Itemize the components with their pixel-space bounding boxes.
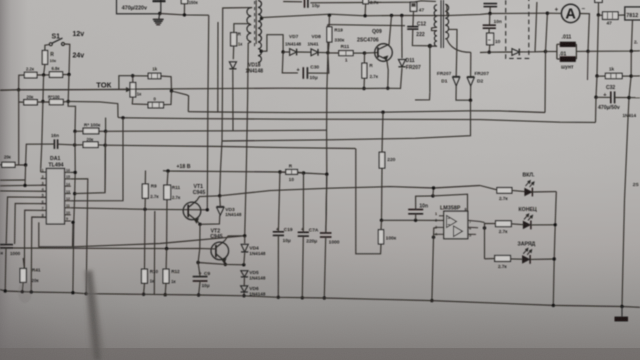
diode D11: [398, 59, 405, 66]
node row2 right: [67, 100, 70, 103]
resistor R11: [339, 51, 353, 56]
wire shunt right lead: [576, 50, 588, 52]
wire led3 left: [485, 258, 495, 260]
wire pin16 to col75: [71, 171, 75, 173]
wire 47 right: [618, 14, 625, 16]
bus 18v: [163, 171, 327, 175]
wire pot bottom: [132, 97, 148, 104]
node left bus: [17, 88, 20, 91]
wire Rstar leads: [75, 130, 83, 132]
wire amp left: [547, 12, 561, 14]
diode VD8: [311, 49, 318, 56]
diode VD7: [290, 49, 297, 56]
resistor R12: [163, 269, 169, 283]
resistor 1k right: [605, 73, 622, 78]
wire row1 mid: [37, 74, 49, 76]
wire shunt right down: [587, 51, 590, 80]
node 20k3 right: [104, 144, 107, 147]
transformer T1 core: [255, 0, 257, 44]
node bus-pin12col: [121, 116, 124, 119]
resistor 150k: [181, 0, 187, 4]
diode opto: [512, 49, 519, 56]
transistor VT1: [183, 202, 201, 220]
wire amp right: [580, 14, 590, 52]
node bus pin4: [430, 299, 433, 302]
wire shunt col up: [546, 13, 548, 51]
node C32 right: [627, 96, 630, 99]
resistor R 10k: [42, 51, 47, 65]
node Rstar right: [104, 130, 107, 133]
potentiometer 1k TOK: [130, 83, 136, 98]
wire R10h right: [298, 171, 304, 174]
bus ground mid: [0, 89, 19, 91]
wire R9R10 col: [144, 209, 147, 269]
wire VD3 top: [219, 196, 222, 207]
resistor R9: [142, 184, 148, 198]
wire pin2 row lm: [382, 219, 444, 221]
shunt R upper bar: [560, 42, 576, 47]
resistor R10 bl: [142, 269, 148, 283]
node bus c: [71, 291, 74, 294]
node led2 cathode: [554, 223, 557, 226]
transistor Q09: [375, 44, 393, 62]
wire C19 top: [278, 172, 280, 232]
wire C32 leads: [596, 96, 611, 98]
wire hf cap down: [489, 7, 491, 14]
bus emitter ground: [0, 68, 402, 90]
node C19 bus: [277, 296, 280, 299]
pin 16 stub: [65, 171, 71, 173]
node VT2c: [243, 234, 246, 237]
node 10n bottom: [414, 219, 417, 222]
wire row1 right: [63, 74, 69, 76]
wire 1k right hook: [161, 76, 172, 91]
node row2 branch: [483, 226, 486, 229]
wire col105: [104, 131, 107, 192]
node 150k bus: [183, 13, 186, 16]
node drive-R9: [143, 208, 146, 211]
node 1k left: [595, 74, 598, 77]
wire 18col to row: [18, 102, 20, 165]
wire pin8 bend: [31, 217, 46, 292]
transformer T2 primary lower: [434, 31, 437, 47]
wire T2 sec bottom: [447, 39, 471, 52]
wire 1k bus right: [631, 75, 640, 77]
wire R41 bottom: [21, 282, 24, 291]
wire C9 top: [198, 224, 200, 276]
transformer T2 core: [440, 0, 442, 48]
wire row2 right: [63, 100, 68, 103]
node C9 bus: [197, 293, 200, 296]
node C32 left: [594, 96, 597, 99]
wire VT1e to VD3: [200, 215, 220, 224]
wire 10n to 10: [488, 28, 490, 33]
wire col597 down: [596, 76, 597, 97]
node 1k right: [629, 74, 632, 77]
node emitter bus: [386, 87, 389, 90]
resistor 47 snub: [410, 2, 417, 11]
capacitor plate bar top-left: [153, 0, 166, 2]
wire long vertical from bus to pin11 row: [207, 15, 208, 210]
wire T2 pri bottom: [430, 46, 437, 92]
node bus amp: [546, 12, 549, 15]
pin 14 stub: [65, 185, 71, 187]
wire 47 to C12: [412, 11, 415, 26]
node R10 bus: [142, 293, 145, 296]
wire col right down: [67, 75, 70, 102]
wire diode out up: [520, 2, 537, 52]
resistor 2.7k led1: [497, 188, 512, 194]
LED ZARYAD: [523, 256, 530, 263]
wire 20k4 left: [0, 164, 2, 166]
node R41 bus: [21, 290, 24, 293]
node 18 end: [325, 173, 328, 176]
wire VT2 collector: [225, 236, 245, 241]
wire 220 bottom: [381, 168, 384, 220]
ground terminal bar: [621, 307, 623, 317]
resistor 2.7k top: [363, 0, 369, 4]
diode VD4: [241, 244, 248, 252]
wire vcc from rail: [432, 188, 435, 196]
bus comp row: [105, 145, 355, 148]
wire 47 left: [598, 14, 602, 16]
wire D2 out: [470, 86, 472, 100]
node VD5 top: [242, 263, 245, 266]
wire led1 leads: [512, 190, 525, 191]
wire T2 sec mid tap: [449, 29, 457, 76]
wire R2.7 bottom: [363, 78, 365, 88]
resistor R 2.7k emitter: [362, 63, 367, 78]
wire R2.7 top: [363, 53, 365, 63]
node VD6 bus: [242, 294, 245, 297]
node pin16: [74, 171, 77, 174]
wire 10u right: [310, 1, 436, 3]
wire VD5-VD6: [243, 278, 245, 286]
wire VT2 base row: [13, 247, 216, 250]
node R10h left: [278, 170, 281, 173]
wire sense line: [68, 101, 118, 117]
node drive-col208: [206, 208, 209, 211]
capacitor 1000 left: [0, 244, 13, 246]
wire diode row: [283, 51, 290, 53]
wire 20k4 right: [15, 164, 26, 166]
wire 20k left: [19, 101, 24, 103]
wire col598 down: [597, 15, 598, 76]
resistor R 10 horiz: [286, 170, 298, 175]
wire VD4 leads: [244, 236, 246, 244]
node R12 bus: [164, 293, 167, 296]
wire 1k leads: [597, 75, 605, 77]
capacitor 1000 mid: [320, 232, 332, 234]
dashed box opto: [506, 0, 529, 58]
wire pin9 down: [72, 222, 75, 247]
wire row2 to col75: [68, 101, 75, 131]
pin 5 stub: [41, 196, 47, 198]
bus rect to shunt: [480, 51, 512, 54]
wire pin1 up: [40, 169, 42, 172]
node bus-R19: [328, 14, 331, 17]
wire left vertical: [18, 90, 20, 102]
wire R10k bottom: [44, 64, 45, 75]
wire pin13 to col105: [75, 131, 106, 193]
photo crease streak: [85, 270, 107, 360]
node shunt right: [586, 50, 589, 53]
op-amp A triangle: [447, 216, 457, 228]
shunt R lower bar: [560, 56, 576, 62]
wire led2 left: [485, 223, 496, 225]
wire charge rail: [222, 100, 471, 141]
wire VD7-VD8: [297, 51, 311, 53]
wire 16n left: [26, 144, 55, 165]
wire VD18 down: [232, 70, 234, 131]
wire col598 top: [597, 2, 599, 15]
pin 8 stub: [41, 216, 47, 218]
pin 10 stub: [65, 214, 71, 216]
wire pot top: [132, 76, 134, 83]
wire pin15 to col88: [71, 179, 88, 294]
diode VD3: [217, 206, 224, 208]
pin 6 stub: [41, 203, 47, 205]
node bus a: [3, 289, 6, 292]
wire pin7 to row2: [480, 222, 485, 223]
node R2.7 bus: [362, 87, 365, 90]
wire T1 sec bottom hook: [261, 35, 283, 52]
wire collector return: [39, 222, 245, 246]
regulator 7812: [625, 7, 640, 20]
node 20k3 left: [73, 143, 76, 146]
wire pot top to left-down: [119, 76, 133, 90]
wire T1 primary bottom: [245, 42, 252, 236]
wire R11vt1 bottom: [166, 200, 168, 249]
wire 2.7k down: [364, 4, 367, 16]
node 7812 out: [630, 49, 633, 52]
wire R9 bottom: [144, 198, 146, 209]
wire 10u left: [283, 1, 302, 3]
wire C30 node top hook: [328, 25, 405, 26]
wire T2 pri link: [432, 27, 438, 30]
node pin13: [73, 192, 76, 195]
wire D11 top: [401, 16, 403, 59]
node rail vcc: [432, 186, 435, 189]
wire shunt left lead: [546, 51, 557, 53]
capacitor hf top: [484, 3, 498, 5]
wire R*100k col top: [105, 118, 107, 132]
node diode row left: [281, 50, 284, 53]
wire pot top to 1k res: [133, 75, 149, 77]
LED KONEC: [523, 221, 530, 228]
wire 150k lead: [183, 4, 185, 15]
pin 9 stub: [65, 220, 71, 222]
node VT2e: [224, 263, 227, 266]
wire VD8 out: [318, 51, 328, 53]
resistor R19 330k: [327, 27, 332, 42]
wire R9 top: [144, 171, 146, 185]
transformer T2 secondary: [445, 4, 448, 39]
bus pin11 drive row: [71, 208, 208, 210]
wire 10 down: [488, 45, 491, 52]
wire pin3 row: [0, 184, 46, 187]
bus current sense: [188, 111, 545, 113]
wire mystery col: [153, 211, 156, 295]
wire 10n bottom lead: [415, 214, 417, 221]
wire shield line: [217, 22, 219, 112]
node T1 sec bottom: [260, 50, 263, 53]
node rect out: [326, 51, 329, 54]
node Q9 base node: [363, 51, 366, 54]
node bus mid: [552, 304, 555, 307]
wire C7A bottom: [302, 236, 303, 298]
pin 11 stub: [65, 207, 71, 209]
capacitor C9: [193, 276, 208, 278]
wire base to Q9: [365, 52, 379, 55]
resistor 10 vert: [487, 33, 494, 45]
node Rstar left: [73, 130, 76, 133]
switch S1: [49, 43, 52, 46]
wire hook down: [164, 91, 172, 105]
node hook: [170, 89, 173, 92]
wire R19 bottom: [328, 42, 329, 53]
wire R12 bottom: [164, 283, 167, 295]
node R10h right: [302, 171, 305, 174]
node bus d: [85, 292, 88, 295]
wire 10n col: [489, 14, 491, 26]
node bus-2.7k: [363, 14, 366, 17]
wire pin7 bend: [24, 210, 46, 268]
pin 12 stub: [65, 200, 71, 202]
node at box corner: [158, 12, 161, 15]
pin 15 stub: [65, 178, 71, 180]
node pot top: [131, 74, 134, 77]
resistor 2.7k led2: [496, 221, 512, 227]
wire R12 top: [165, 249, 168, 270]
wire R41 top: [23, 258, 24, 269]
diode D2 FR207: [467, 76, 474, 78]
wire S1 right to 24v drop: [65, 44, 70, 75]
rail emitter 264: [198, 263, 244, 265]
wire pin4 row: [0, 190, 46, 192]
node row1 mid: [42, 73, 45, 76]
wire C32 bus right: [629, 97, 640, 99]
wire VD6 down: [243, 293, 245, 296]
node VT1c: [218, 194, 221, 197]
wire C30 right: [307, 53, 328, 73]
op-amp B triangle: [454, 226, 463, 237]
wire R10 bottom: [143, 283, 146, 294]
LED VKL: [525, 188, 532, 195]
wire pin12 bend: [71, 118, 123, 201]
wire pin6 bend: [15, 203, 47, 244]
resistor 2.7k led3: [495, 256, 511, 262]
wire T1 primary top: [220, 8, 253, 196]
wire vcc to pin8: [433, 194, 468, 211]
diode D1 FR207: [453, 76, 460, 78]
resistor 220: [379, 152, 385, 168]
wire VT2 emitter: [224, 261, 226, 264]
wire C19 bottom: [277, 235, 279, 297]
node col598: [597, 13, 600, 16]
diode VD6: [241, 286, 248, 292]
wire R11vt1 top: [166, 171, 169, 185]
node D1D2 join: [469, 99, 472, 102]
wire 7812 down: [631, 20, 632, 51]
rail collector out: [220, 186, 480, 196]
node C7A bus: [301, 296, 304, 299]
node 20k4 right: [24, 163, 27, 166]
wire col631: [622, 51, 631, 306]
wire c1000 top: [326, 174, 327, 233]
resistor 47 right: [603, 12, 619, 20]
node VT1e: [198, 223, 201, 226]
node T2 primary bottom: [428, 44, 432, 48]
pin 4 stub: [41, 190, 47, 192]
wire VT1 emitter node: [198, 221, 201, 224]
wire 220 top: [382, 112, 383, 152]
wire rect col down: [282, 52, 298, 73]
pin 7 stub: [41, 209, 47, 211]
wire pin5 bend: [6, 197, 46, 244]
node bus b: [30, 290, 33, 293]
wire row2 mid: [37, 101, 49, 103]
node pin9: [71, 221, 74, 224]
resistor R 1k snub: [231, 33, 237, 46]
wire VT1 collector: [197, 196, 220, 201]
node row2 mid: [41, 100, 44, 103]
wire col mid down: [41, 75, 44, 169]
wire R11 left: [328, 52, 339, 54]
wire TOK arrow line: [0, 89, 127, 92]
wire R11 right: [353, 52, 364, 54]
bus ground bottom: [0, 290, 640, 308]
wire branch col: [484, 223, 486, 259]
wire diode row to shunt node: [535, 51, 546, 53]
op-amp U2 LM358P body: [444, 211, 468, 239]
component top right: [595, 0, 602, 2]
wire C30 col down: [327, 25, 329, 53]
wire T1 primary tap: [234, 24, 250, 33]
transformer T1 secondary winding: [258, 1, 261, 42]
wire C9 bottom: [199, 281, 201, 295]
wire S1 left to R10k: [45, 45, 49, 51]
wire 2.2k left down: [19, 75, 25, 90]
node c1000 bus: [323, 296, 326, 299]
node led3 cathode: [553, 257, 556, 260]
wire led1 left: [480, 186, 497, 190]
wire C12 bottom: [412, 29, 429, 46]
pin 13 stub: [65, 193, 71, 195]
node row1 right: [67, 73, 70, 76]
node diode in: [488, 51, 491, 54]
wire R1k bottom: [232, 46, 234, 59]
bus output sense: [118, 117, 596, 122]
wire R19 top: [328, 15, 330, 27]
wire Q9 emitter down: [387, 60, 388, 89]
wire top bus left: [160, 14, 209, 16]
wire col596 down: [595, 97, 598, 122]
wire 100k top: [380, 220, 383, 229]
ground: [158, 14, 161, 19]
resistor R41: [20, 269, 26, 283]
wire Q9 collector: [389, 16, 392, 45]
bus right 51: [588, 50, 640, 53]
pin 1 stub: [41, 171, 47, 173]
wire 10n top: [416, 196, 433, 210]
resistor 100k: [378, 230, 383, 244]
node bus-D11: [400, 14, 403, 17]
node vcc lm: [431, 194, 434, 197]
bus feedback row: [106, 130, 327, 131]
wire C7A top: [302, 173, 304, 232]
wire node to pin3: [24, 165, 27, 185]
